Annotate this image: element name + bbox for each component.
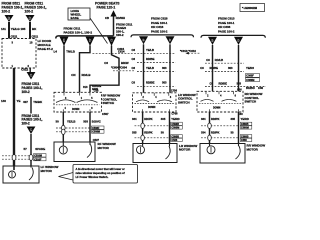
svg-text:YE/RD: YE/RD bbox=[241, 117, 249, 121]
wire stubs into RR motor bbox=[209, 144, 211, 146]
svg-text:* LM2000/2M: * LM2000/2M bbox=[242, 7, 257, 10]
label 334 RD/PK 335 YE/RD bbox=[132, 117, 180, 121]
node: C508M boxed label bbox=[92, 130, 105, 133]
wire: LR switch to motor right bbox=[169, 112, 171, 144]
svg-text:RD/PK: RD/PK bbox=[211, 130, 219, 134]
svg-text:303: 303 bbox=[237, 81, 242, 85]
wire: RF switch pin6 to motor bbox=[89, 112, 91, 142]
node: C590B boxed 2 bbox=[171, 135, 183, 138]
svg-text:17B6: 17B6 bbox=[171, 90, 178, 93]
svg-text:100-2: 100-2 bbox=[22, 90, 30, 94]
svg-text:RD/PK: RD/PK bbox=[144, 130, 152, 134]
motor M1 internal curve bbox=[29, 168, 33, 181]
svg-text:C360: C360 bbox=[241, 139, 247, 142]
node: FROM C511 label (center 4-line) bbox=[116, 22, 133, 37]
svg-text:30: 30 bbox=[161, 130, 165, 134]
svg-text:C360F: C360F bbox=[246, 75, 254, 78]
motor M3: LR window motor box bbox=[133, 144, 177, 163]
svg-text:C511: C511 bbox=[32, 34, 39, 38]
svg-text:C614: C614 bbox=[118, 50, 125, 54]
svg-text:100-2: 100-2 bbox=[2, 10, 11, 14]
svg-text:C6: C6 bbox=[132, 80, 136, 84]
connector line (dashed) LR b bbox=[137, 62, 176, 64]
svg-text:185: 185 bbox=[21, 27, 26, 31]
svg-text:RD/PK: RD/PK bbox=[144, 117, 152, 121]
switch S3: RR window control switch dashed box bbox=[197, 91, 243, 112]
svg-text:335: 335 bbox=[231, 117, 236, 121]
junction oval RR m1 bbox=[208, 123, 212, 128]
label row RR 2 bbox=[200, 66, 254, 70]
svg-text:raise window depending on posi: raise window depending on position of bbox=[76, 171, 125, 175]
connector triangle E on bus bbox=[60, 37, 69, 46]
svg-text:RD/WH: RD/WH bbox=[116, 16, 125, 20]
svg-text:RD/PK: RD/PK bbox=[211, 117, 219, 121]
wire: LR right feed bbox=[169, 44, 171, 93]
note callout box bbox=[73, 165, 138, 184]
label C6 BR/W bbox=[104, 61, 129, 65]
connector line (dashed) row1 bbox=[56, 127, 91, 129]
wire: down to LF motor bbox=[30, 134, 32, 166]
svg-text:407: 407 bbox=[23, 100, 28, 104]
svg-text:YE/RD: YE/RD bbox=[171, 117, 179, 121]
svg-text:100-2: 100-2 bbox=[116, 33, 124, 37]
label 185 BK bbox=[21, 27, 38, 31]
wire: RR switch to motor right bbox=[238, 112, 240, 144]
svg-text:334: 334 bbox=[201, 117, 206, 121]
note text bbox=[76, 167, 125, 179]
svg-text:RD/BE: RD/BE bbox=[146, 80, 155, 84]
wire: RF switch pin4 to motor bbox=[62, 112, 64, 142]
svg-text:C6: C6 bbox=[132, 48, 136, 52]
connector triangle (LR right) bbox=[166, 36, 175, 44]
svg-text:C526: C526 bbox=[172, 139, 178, 142]
node: POWER SEATS header bbox=[95, 2, 120, 10]
svg-text:334: 334 bbox=[201, 130, 206, 134]
motor M1 circle bbox=[9, 171, 16, 178]
wire: LR left feed bbox=[143, 44, 145, 93]
svg-text:C6: C6 bbox=[200, 66, 204, 70]
connector triangle (LR left) bbox=[139, 36, 148, 44]
label CB RD/WH bbox=[105, 16, 125, 20]
wire into motor bbox=[13, 166, 15, 170]
connector triangle C2 (from C511 lower) bbox=[27, 127, 36, 135]
connector line (dashed) RR a bbox=[205, 62, 244, 64]
connector line (dashed) LR m2 bbox=[135, 137, 171, 139]
wire: LR switch to motor left bbox=[142, 112, 144, 144]
node: LR WINDOW CONTROL SWITCH label bbox=[178, 93, 196, 105]
svg-text:A bi-directional motor that wi: A bi-directional motor that will lower o… bbox=[76, 167, 125, 171]
node: C360B boxed bbox=[240, 122, 252, 125]
wire: supply bus (left) bbox=[56, 36, 114, 39]
node: RF WINDOW MOTOR label bbox=[98, 142, 116, 150]
svg-text:LF Power Window Switch.: LF Power Window Switch. bbox=[76, 175, 109, 179]
svg-text:303: 303 bbox=[83, 119, 88, 123]
arrow to power seats page bbox=[110, 10, 116, 16]
pointer line from LONG WHEEL BASE bbox=[90, 18, 108, 44]
svg-text:335: 335 bbox=[161, 117, 166, 121]
label CN RD/LB bbox=[71, 73, 90, 77]
svg-text:PAGE 100-2: PAGE 100-2 bbox=[218, 29, 235, 33]
node: FROM C511 source label (top) bbox=[25, 2, 47, 14]
wire: bracket bus (RR) bbox=[201, 35, 265, 37]
svg-text:313: 313 bbox=[83, 85, 88, 89]
node: FROM S521 source label bbox=[2, 2, 24, 14]
motor M4: RR window motor box bbox=[200, 144, 245, 164]
svg-text:C507: C507 bbox=[102, 112, 109, 116]
svg-text:TN/LB: TN/LB bbox=[66, 49, 75, 53]
connector triangle D (from C511) bbox=[26, 15, 35, 22]
connector line (dashed) C604/C614 boundary bbox=[93, 52, 176, 54]
node: FROM C313 label bbox=[218, 17, 235, 34]
svg-text:CN: CN bbox=[71, 73, 75, 77]
wire: RR left feed bbox=[212, 45, 214, 91]
node: C360B boxed 2 bbox=[240, 135, 252, 138]
connector triangle B (from S521) bbox=[5, 15, 14, 22]
motor M3 circle bbox=[137, 146, 145, 154]
node: FROM C511 label (mid-left) bbox=[22, 82, 43, 94]
node: footnote box top right bbox=[240, 4, 265, 12]
label C6 YE/LB bbox=[132, 48, 155, 52]
connector line C511 (dashed) bbox=[2, 158, 33, 160]
svg-text:RD/LB: RD/LB bbox=[215, 58, 223, 62]
node: C360F boxed bbox=[246, 74, 260, 78]
label 57 SPARE bbox=[24, 147, 46, 151]
node: RR WINDOW MOTOR label bbox=[247, 144, 266, 152]
svg-text:C590M: C590M bbox=[172, 127, 180, 130]
svg-text:100-2: 100-2 bbox=[22, 121, 30, 125]
svg-text:303: 303 bbox=[162, 66, 167, 70]
svg-text:MOTOR: MOTOR bbox=[41, 169, 53, 173]
svg-text:C508F: C508F bbox=[92, 127, 100, 130]
svg-text:SPARE: SPARE bbox=[35, 147, 45, 151]
connector triangle C (to C511) bbox=[27, 72, 36, 80]
svg-text:335: 335 bbox=[132, 130, 137, 134]
svg-text:L4: L4 bbox=[54, 49, 58, 53]
svg-text:C360B: C360B bbox=[241, 123, 249, 126]
wire: LF door module pin2 stub bbox=[29, 68, 31, 72]
svg-text:MOTOR: MOTOR bbox=[179, 148, 191, 152]
svg-text:C6: C6 bbox=[132, 57, 136, 61]
label 30 YE/LB bbox=[56, 119, 101, 123]
connector line (dashed) RR m1 bbox=[201, 125, 239, 127]
node: C526 boxed bbox=[171, 138, 183, 141]
node: C360 boxed bbox=[240, 138, 252, 141]
node: FROM C511 label (lower-left) bbox=[22, 114, 43, 126]
svg-text:57: 57 bbox=[24, 147, 28, 151]
connector triangle C on bus bbox=[107, 37, 116, 46]
junction oval on right wire bbox=[29, 155, 33, 161]
connector line C510 (dashed) bbox=[2, 155, 33, 157]
label row2 RR bbox=[201, 130, 234, 134]
junction oval LR m1 bbox=[141, 123, 145, 128]
switch S2 internals bbox=[135, 93, 175, 112]
node: RF WINDOW CONTROL SWITCH label bbox=[103, 94, 121, 106]
svg-text:C6: C6 bbox=[210, 81, 214, 85]
junction oval RR m2 bbox=[208, 135, 212, 140]
module U1: LF door module dashed box bbox=[2, 39, 36, 69]
svg-text:30: 30 bbox=[56, 119, 60, 123]
svg-text:334: 334 bbox=[132, 117, 137, 121]
svg-text:C510M: C510M bbox=[34, 155, 42, 158]
junction oval RF row1 bbox=[62, 125, 66, 130]
svg-text:RD/LB: RD/LB bbox=[82, 73, 91, 77]
label C6 RD/LB bbox=[206, 58, 223, 62]
svg-text:C6: C6 bbox=[206, 58, 210, 62]
svg-text:C706: C706 bbox=[172, 113, 179, 116]
svg-text:YE/LB: YE/LB bbox=[146, 48, 154, 52]
svg-text:C360M: C360M bbox=[241, 127, 249, 130]
node: LF WINDOW MOTOR label bbox=[41, 165, 59, 173]
svg-text:BASE: BASE bbox=[71, 16, 79, 20]
wire: 407 TN/BK segment bbox=[30, 97, 32, 114]
svg-text:140: 140 bbox=[1, 99, 6, 103]
switch S1 internals bbox=[56, 92, 100, 112]
svg-text:C521: C521 bbox=[11, 34, 18, 38]
svg-text:PAGE 100-2: PAGE 100-2 bbox=[151, 29, 168, 33]
svg-text:YE/R3: YE/R3 bbox=[246, 66, 254, 70]
svg-text:141: 141 bbox=[1, 27, 6, 31]
svg-text:RD/BE: RD/BE bbox=[146, 57, 155, 61]
wire: bus triangle D jog bbox=[80, 46, 91, 93]
svg-text:C508M: C508M bbox=[92, 131, 100, 134]
svg-text:30: 30 bbox=[231, 130, 235, 134]
svg-text:RD/BE: RD/BE bbox=[210, 66, 219, 70]
connector line (dashed) at C604 bbox=[113, 70, 135, 72]
svg-text:DOWN: DOWN bbox=[72, 109, 80, 111]
svg-text:SWITCH: SWITCH bbox=[103, 101, 115, 105]
node: RR WINDOW CONTROL SWITCH label bbox=[245, 92, 263, 104]
svg-text:303: 303 bbox=[162, 80, 167, 84]
svg-text:C590B: C590B bbox=[172, 123, 180, 126]
svg-text:C50: C50 bbox=[94, 90, 99, 93]
switch S3 internals bbox=[199, 91, 241, 112]
svg-text:E: E bbox=[63, 39, 65, 43]
label 407 TN/BK bbox=[23, 100, 43, 104]
motor M2 circle bbox=[59, 146, 67, 154]
node: C510F boxed label bbox=[34, 157, 47, 160]
label 334 RD/PK 335 YE/RD RR bbox=[201, 117, 249, 121]
label 313 SPARE GRN bbox=[83, 84, 101, 91]
svg-text:C360M: C360M bbox=[246, 79, 254, 82]
wire stubs into LR motor bbox=[142, 144, 144, 146]
svg-text:DOWN: DOWN bbox=[148, 107, 156, 109]
switch S1: RF window control switch dashed box bbox=[54, 92, 102, 112]
junction oval LR m2 bbox=[141, 135, 145, 140]
wire: C511 to LF door module pin bbox=[29, 22, 31, 39]
svg-text:SWITCH: SWITCH bbox=[245, 100, 257, 104]
label 335 RD/PK row2 bbox=[132, 130, 164, 134]
label 141 YE/LG bbox=[1, 27, 20, 31]
switch S2: LR window control switch dashed box bbox=[133, 93, 177, 112]
node: C510M boxed label bbox=[34, 154, 47, 157]
motor M4 internal curve bbox=[236, 146, 241, 159]
connector triangle (RR right) bbox=[234, 37, 243, 45]
label L4 TN/LB bbox=[54, 49, 75, 53]
svg-text:C522: C522 bbox=[21, 67, 28, 71]
connector line (dashed) LR c bbox=[137, 71, 176, 73]
svg-text:BR/W: BR/W bbox=[121, 61, 129, 65]
node: C590M boxed bbox=[171, 126, 183, 129]
connector line (dashed) RR b bbox=[205, 71, 244, 73]
connector line (dashed) LR d bbox=[137, 85, 176, 87]
svg-text:YE/LB: YE/LB bbox=[146, 66, 154, 70]
connector triangle D on bus bbox=[86, 37, 95, 46]
svg-text:PAGE 120-1: PAGE 120-1 bbox=[97, 6, 116, 10]
node: C590B boxed bbox=[171, 122, 183, 125]
motor M1: LF window motor box bbox=[3, 166, 39, 183]
label row LR lower bbox=[132, 80, 168, 84]
node: C360M boxed bbox=[246, 78, 260, 82]
wire: bus triangle C jog right bbox=[112, 46, 120, 71]
svg-text:YE/LG: YE/LG bbox=[11, 27, 21, 31]
svg-text:TN/BK: TN/BK bbox=[33, 100, 43, 104]
label 140 YE bbox=[1, 99, 20, 103]
wire: bracket bus (LR) bbox=[131, 35, 194, 37]
label C6 RD/BE bbox=[132, 57, 155, 61]
svg-text:MOTOR: MOTOR bbox=[247, 147, 259, 151]
svg-text:SWITCH: SWITCH bbox=[178, 100, 190, 104]
wire: bus to RF switch pin 3 bbox=[63, 46, 65, 93]
connector line (dashed) RR m2 bbox=[201, 137, 239, 139]
label row RR 3 bbox=[210, 81, 242, 85]
wire: power seats feed bbox=[113, 17, 115, 36]
svg-text:100-2: 100-2 bbox=[25, 10, 34, 14]
svg-text:YE/LB: YE/LB bbox=[67, 119, 75, 123]
node: LONG WHEEL BASE box bbox=[68, 8, 90, 20]
connector line (dashed with arrow) at C610 bbox=[188, 52, 200, 54]
svg-text:BG/VC: BG/VC bbox=[92, 119, 101, 123]
wire: LF door module pin1 down to LF window motor (thick) bbox=[13, 68, 15, 166]
label C6 YE/LB 2 bbox=[132, 66, 168, 70]
node: FROM C511 label (2-line above bus) bbox=[64, 26, 93, 34]
connector line (dashed) row2 bbox=[56, 131, 91, 133]
svg-text:MOTOR: MOTOR bbox=[98, 146, 110, 150]
svg-text:YE: YE bbox=[17, 99, 21, 103]
junction oval on thick wire bbox=[12, 155, 16, 161]
motor M3 internal curve bbox=[166, 146, 171, 159]
motor M2: RF window motor box bbox=[54, 142, 95, 162]
node: LR WINDOW MOTOR label bbox=[179, 144, 197, 152]
svg-text:303: 303 bbox=[228, 66, 233, 70]
junction oval RF row2 bbox=[62, 129, 66, 134]
callout tail bbox=[59, 173, 74, 177]
svg-text:CB: CB bbox=[105, 16, 109, 20]
node: FROM C328 label bbox=[151, 17, 168, 34]
motor M4 circle bbox=[207, 146, 215, 154]
svg-text:C36: C36 bbox=[237, 89, 242, 92]
node: C360M boxed lower bbox=[240, 126, 252, 129]
svg-text:PAGES 100-1, 100-2: PAGES 100-1, 100-2 bbox=[64, 30, 93, 34]
connector triangle (RR left) bbox=[208, 37, 217, 45]
svg-text:*C604 *C604: *C604 *C604 bbox=[111, 65, 127, 69]
label BK/BO C30 bbox=[246, 86, 263, 90]
connector line (dashed) RR c bbox=[205, 86, 266, 88]
connector line (dashed) LR m1 bbox=[135, 125, 171, 127]
svg-text:DOWN: DOWN bbox=[213, 107, 221, 109]
motor M2 internal curve bbox=[87, 145, 92, 158]
wire stubs into RF motor bbox=[62, 142, 64, 146]
svg-text:C510F: C510F bbox=[34, 158, 42, 161]
svg-text:C6: C6 bbox=[132, 66, 136, 70]
node: LF DOOR MODULE label bbox=[38, 39, 54, 51]
svg-text:PAGE 87-2: PAGE 87-2 bbox=[38, 47, 54, 51]
svg-text:RD/BE: RD/BE bbox=[219, 81, 228, 85]
wire: RR switch to motor left bbox=[209, 112, 211, 144]
node: C508F boxed label bbox=[92, 126, 105, 129]
wire: S521 to LF door module pin bbox=[8, 22, 10, 39]
wire: RR right feed bbox=[238, 45, 240, 91]
wire: down then left to RF switch pin 5 bbox=[90, 71, 119, 92]
svg-text:C6: C6 bbox=[104, 61, 108, 65]
